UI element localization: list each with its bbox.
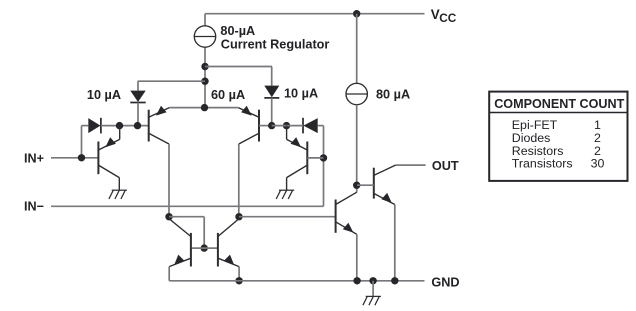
ground Q1 collector xyxy=(109,190,127,199)
label 80 uA xyxy=(376,87,410,101)
wire regulator bottom stem xyxy=(204,47,206,108)
transistor Q6 xyxy=(218,219,239,281)
transistor Q1 xyxy=(98,126,119,191)
table row Diodes xyxy=(512,131,601,145)
transistor Q5 xyxy=(169,219,191,281)
wire top rail VCC xyxy=(205,13,425,15)
svg-text:Current Regulator: Current Regulator xyxy=(221,38,330,52)
wire regulator top stem xyxy=(204,14,206,26)
table header xyxy=(494,97,624,111)
wire ground stem xyxy=(372,281,374,297)
svg-text:10 µA: 10 µA xyxy=(87,88,121,102)
wire branch to right 10uA diode xyxy=(205,67,272,86)
label GND xyxy=(431,275,459,289)
wire Q2 emitter rail xyxy=(169,107,238,109)
label IN+ xyxy=(24,151,44,165)
diode D3 input left loop xyxy=(88,118,101,134)
transistor Q4 xyxy=(287,126,324,191)
wire mirror collector to bases xyxy=(169,217,204,248)
node 60uA branch upper xyxy=(201,63,208,70)
svg-text:60 µA: 60 µA xyxy=(211,88,245,102)
svg-text:Transistors: Transistors xyxy=(512,157,573,171)
table row Resistors xyxy=(512,144,601,158)
node IN+ xyxy=(78,154,85,161)
transistor Q8 xyxy=(357,165,396,281)
table row Transistors xyxy=(512,157,605,171)
node Q4 base junction xyxy=(320,154,327,161)
diode D2 right 10uA xyxy=(264,86,279,126)
label 10 uA left xyxy=(87,88,121,102)
wire Q3 collector drop xyxy=(238,144,240,217)
svg-text:30: 30 xyxy=(591,157,605,171)
wire IN- lead xyxy=(51,205,324,207)
wire diode D3 anode to IN+ node xyxy=(82,126,89,158)
label VCC xyxy=(431,7,457,25)
svg-text:Diodes: Diodes xyxy=(512,131,551,145)
transistor Q7 xyxy=(336,192,357,281)
svg-text:80 µA: 80 µA xyxy=(376,87,410,101)
node Q8 base junction xyxy=(353,182,360,189)
node Q4 emitter junction xyxy=(283,122,290,129)
node Q7 emitter on GND rail xyxy=(353,277,360,284)
label OUT xyxy=(432,159,459,173)
label IN- xyxy=(24,200,44,214)
node mirror base tie xyxy=(201,244,208,251)
wire 80uA source to Q8 base node xyxy=(356,105,358,193)
table row Epi-FET xyxy=(512,118,601,132)
label 80-uA Current Regulator xyxy=(220,24,329,52)
diode D1 left 10uA xyxy=(130,91,145,126)
svg-text:IN+: IN+ xyxy=(24,151,44,165)
node Q1 emitter junction xyxy=(116,122,123,129)
current source 80-uA regulator xyxy=(194,26,215,47)
svg-text:CC: CC xyxy=(439,11,457,25)
wire left loop horizontal xyxy=(101,125,149,127)
current source 80 uA xyxy=(346,83,367,104)
wire mirror base rail xyxy=(191,247,218,249)
node mirror left collector xyxy=(165,213,172,220)
label 60 uA xyxy=(211,88,245,102)
svg-text:1: 1 xyxy=(594,118,601,132)
label 10 uA right xyxy=(284,87,318,101)
wire diode D4 anode to corner xyxy=(318,126,324,207)
transistor Q2 xyxy=(149,106,170,144)
node Q8 emitter on GND rail xyxy=(391,277,398,284)
diode D4 input right loop xyxy=(303,118,318,134)
wire Q7 base from mirror xyxy=(239,216,336,218)
svg-text:Resistors: Resistors xyxy=(512,144,564,158)
node VCC rail junction xyxy=(353,10,360,17)
svg-text:COMPONENT COUNT: COMPONENT COUNT xyxy=(494,97,624,111)
svg-text:80-µA: 80-µA xyxy=(220,24,255,38)
node Q6 emitter on GND rail xyxy=(235,277,242,284)
wire IN+ lead xyxy=(51,157,98,159)
node D2 junction xyxy=(268,122,275,129)
ground main xyxy=(363,296,381,305)
wire right loop horizontal xyxy=(272,125,303,127)
svg-text:GND: GND xyxy=(431,275,459,289)
svg-text:2: 2 xyxy=(594,131,601,145)
node ground tap xyxy=(369,277,376,284)
transistor Q3 xyxy=(238,106,259,144)
ground Q4 collector xyxy=(276,190,294,199)
wire Q2 collector drop xyxy=(168,144,170,217)
table component count box xyxy=(489,92,627,181)
node D1 junction xyxy=(134,122,141,129)
svg-text:OUT: OUT xyxy=(432,159,459,173)
svg-text:IN−: IN− xyxy=(24,200,44,214)
svg-text:2: 2 xyxy=(594,144,601,158)
node mirror right collector xyxy=(235,213,242,220)
wire GND rail xyxy=(169,280,424,282)
node 60uA branch lower xyxy=(201,78,208,85)
wire branch to left 10uA diode xyxy=(138,81,205,90)
svg-text:Epi-FET: Epi-FET xyxy=(512,118,558,132)
node emitter rail center xyxy=(201,104,208,111)
wire Q3 base to loop xyxy=(259,125,272,127)
wire OUT lead xyxy=(396,164,426,166)
wire VCC to 80uA source xyxy=(356,14,358,84)
svg-text:10 µA: 10 µA xyxy=(284,87,318,101)
